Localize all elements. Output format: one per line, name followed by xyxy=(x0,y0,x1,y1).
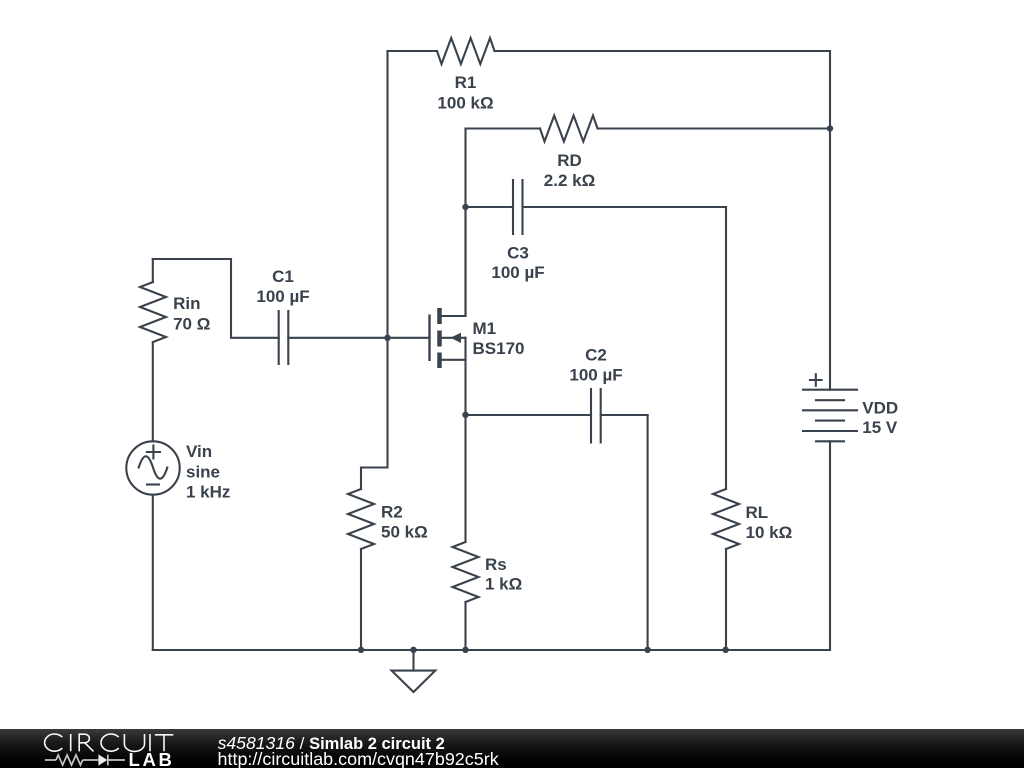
svg-text:C2: C2 xyxy=(585,346,607,365)
svg-text:Rin: Rin xyxy=(173,294,200,313)
svg-text:10 kΩ: 10 kΩ xyxy=(746,523,793,542)
svg-text:BS170: BS170 xyxy=(473,339,525,358)
svg-text:http://circuitlab.com/cvqn47b9: http://circuitlab.com/cvqn47b92c5rk xyxy=(218,749,499,768)
svg-text:1 kΩ: 1 kΩ xyxy=(485,575,522,594)
svg-text:Rs: Rs xyxy=(485,555,507,574)
svg-text:R1: R1 xyxy=(455,73,477,92)
svg-text:VDD: VDD xyxy=(862,399,898,418)
svg-text:sine: sine xyxy=(186,462,220,481)
svg-text:100 µF: 100 µF xyxy=(569,365,622,384)
svg-text:1 kHz: 1 kHz xyxy=(186,482,230,501)
svg-text:2.2 kΩ: 2.2 kΩ xyxy=(544,171,595,190)
svg-text:100 µF: 100 µF xyxy=(491,263,544,282)
svg-text:LAB: LAB xyxy=(129,749,175,768)
svg-text:Vin: Vin xyxy=(186,442,212,461)
svg-text:RL: RL xyxy=(746,503,769,522)
svg-text:15 V: 15 V xyxy=(862,418,898,437)
svg-text:50 kΩ: 50 kΩ xyxy=(381,522,428,541)
svg-text:C1: C1 xyxy=(272,267,294,286)
svg-text:M1: M1 xyxy=(473,319,497,338)
svg-text:R2: R2 xyxy=(381,503,403,522)
svg-text:RD: RD xyxy=(557,151,582,170)
svg-text:C3: C3 xyxy=(507,243,529,262)
svg-text:70 Ω: 70 Ω xyxy=(173,314,210,333)
svg-text:100 kΩ: 100 kΩ xyxy=(437,93,493,112)
svg-text:100 µF: 100 µF xyxy=(256,287,309,306)
